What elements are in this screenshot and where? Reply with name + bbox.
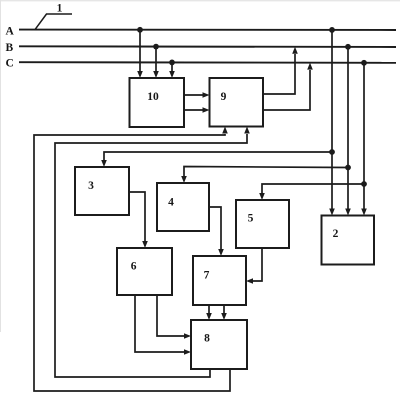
- block 9: [210, 78, 264, 127]
- wire bus C to block 2 pin 3: [361, 60, 367, 216]
- wire 6 to 8 upper: [157, 295, 191, 339]
- wire node B branch to block 4: [181, 167, 348, 184]
- frame left edge: [0, 0, 1, 332]
- svg-text:5: 5: [248, 213, 254, 225]
- svg-text:C: C: [6, 57, 14, 69]
- wire 6 to 8 lower: [135, 295, 191, 355]
- svg-text:2: 2: [333, 228, 339, 240]
- svg-text:B: B: [6, 42, 14, 54]
- wire bus A to block 10 pin 1: [137, 27, 143, 78]
- bus A: [6, 26, 397, 38]
- wire 5 to 7: [246, 248, 262, 284]
- wire 4 to 7: [209, 207, 224, 256]
- label 1 leader line: [35, 14, 72, 30]
- svg-text:8: 8: [204, 333, 210, 345]
- wire 8 to 9 inner feedback: [55, 127, 250, 378]
- wire node C branch to block 5: [259, 184, 364, 200]
- wire bus C to block 10 pin 3: [169, 60, 175, 79]
- wire bus A to block 2 pin 1: [329, 27, 335, 216]
- wire 7 to 8 right: [221, 305, 227, 320]
- block 8: [191, 320, 247, 369]
- wire 10 to 9 lower: [184, 107, 210, 113]
- wire bus B to block 2 pin 2: [345, 44, 351, 216]
- svg-text:A: A: [6, 26, 15, 38]
- wire bus B to block 10 pin 2: [153, 44, 159, 78]
- wire node A branch to block 3: [101, 152, 332, 167]
- svg-text:6: 6: [131, 260, 137, 272]
- svg-text:9: 9: [221, 91, 227, 103]
- wire 9 to bus B: [263, 47, 298, 94]
- wire 10 to 9 upper: [184, 92, 210, 98]
- bus B: [6, 42, 397, 54]
- wire 7 to 8 left: [206, 305, 212, 320]
- block 6: [117, 248, 172, 295]
- svg-text:7: 7: [204, 269, 210, 281]
- wire 9 to bus C: [263, 63, 313, 110]
- frame top edge: [0, 0, 400, 1]
- wire 8 to 9 outer feedback: [34, 127, 230, 392]
- svg-text:4: 4: [168, 197, 174, 209]
- block 10: [130, 78, 185, 127]
- block 4: [157, 183, 209, 231]
- svg-text:10: 10: [147, 91, 159, 103]
- svg-text:3: 3: [88, 180, 94, 192]
- wire 3 to 6: [129, 192, 148, 248]
- bus C: [6, 57, 397, 69]
- block 3: [75, 167, 129, 215]
- block 5: [236, 200, 289, 248]
- block 7: [193, 256, 246, 305]
- svg-text:1: 1: [57, 3, 63, 15]
- block 2: [322, 216, 375, 265]
